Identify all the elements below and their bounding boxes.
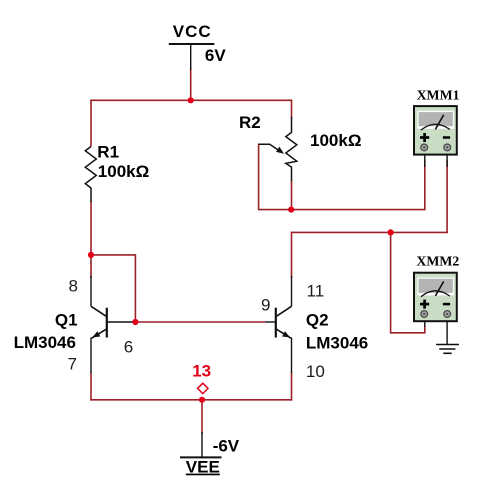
svg-text:100kΩ: 100kΩ — [98, 162, 149, 181]
svg-text:100kΩ: 100kΩ — [310, 131, 361, 150]
svg-text:6: 6 — [124, 337, 133, 356]
svg-text:XMM2: XMM2 — [416, 254, 459, 269]
svg-text:8: 8 — [69, 276, 78, 295]
svg-text:VEE: VEE — [186, 458, 220, 477]
svg-text:Q1: Q1 — [55, 311, 78, 330]
svg-text:R1: R1 — [97, 142, 119, 161]
svg-text:XMM1: XMM1 — [417, 88, 460, 103]
svg-text:VCC: VCC — [173, 22, 212, 41]
svg-text:13: 13 — [192, 361, 211, 380]
svg-text:7: 7 — [68, 355, 77, 374]
svg-text:Q2: Q2 — [306, 311, 329, 330]
svg-text:9: 9 — [261, 295, 270, 314]
svg-text:R2: R2 — [239, 113, 261, 132]
svg-text:10: 10 — [306, 362, 325, 381]
svg-text:11: 11 — [307, 281, 325, 300]
svg-text:6V: 6V — [205, 46, 226, 65]
svg-text:LM3046: LM3046 — [306, 334, 368, 353]
svg-text:LM3046: LM3046 — [14, 333, 76, 352]
svg-text:-6V: -6V — [213, 437, 240, 456]
